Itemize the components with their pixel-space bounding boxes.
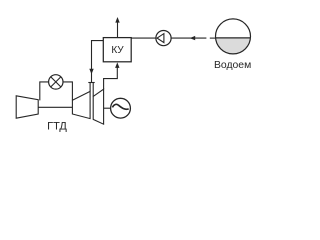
svg-text:Водоем: Водоем: [214, 60, 251, 71]
pump P1 triangle: [157, 34, 164, 43]
chimney mouth bar: [88, 82, 94, 84]
generator sine wave: [112, 104, 128, 109]
arrow up into KU bottom: [115, 62, 119, 68]
reservoir water line chord: [216, 37, 251, 39]
wire combustion chamber to turbine T1 inlet: [63, 82, 72, 100]
arrow up to atmosphere: [115, 17, 119, 23]
generator G circle: [111, 98, 131, 118]
wire KU left side to stack-down: [92, 41, 104, 83]
shaft compressor-turbine: [38, 106, 72, 108]
svg-text:КУ: КУ: [111, 45, 124, 56]
pump P1 circle: [156, 30, 171, 45]
wire turbine exhaust duct to KU bottom: [104, 67, 118, 89]
arrow down on KU-left wire: [89, 69, 93, 75]
arrow flow left on reservoir line: [190, 36, 196, 40]
svg-text:ГТД: ГТД: [47, 120, 67, 132]
combustion chamber X mark: [51, 77, 61, 87]
shaft turbine-generator: [104, 107, 111, 109]
wire pump to reservoir: [171, 37, 206, 39]
reservoir water fill (lower half): [216, 38, 251, 54]
reservoir circle: [216, 19, 251, 54]
wire compressor outlet to combustion chamber: [40, 82, 49, 101]
compressor K1: [16, 96, 38, 118]
boiler KU box: [103, 38, 131, 62]
wire flue-gas stack outlet (vertical above KU box): [117, 22, 119, 38]
chimney left wall: [89, 83, 91, 92]
turbine T2 (LP): [93, 89, 103, 124]
wire KU right to pump (feed-water line): [131, 37, 156, 39]
wire stub at reservoir inlet: [210, 37, 216, 39]
combustion chamber CC circle: [49, 75, 63, 89]
chimney right wall: [92, 83, 94, 97]
turbine T1 (HP): [72, 91, 90, 118]
